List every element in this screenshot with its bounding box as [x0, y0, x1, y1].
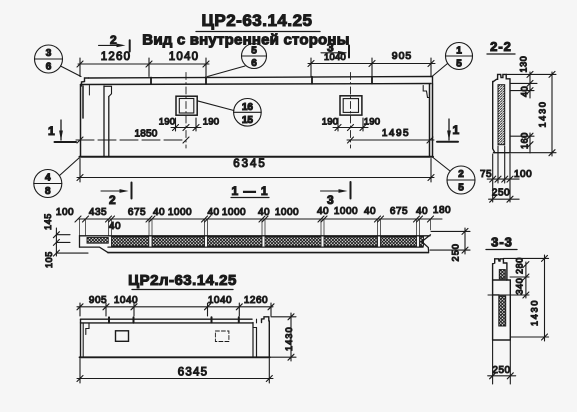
- svg-text:6345: 6345: [233, 158, 267, 170]
- dimension 190 190 (opening 1): [159, 117, 219, 132]
- callout circle 3/6: [35, 45, 82, 77]
- svg-text:1495: 1495: [382, 128, 410, 139]
- section mark 3 (bottom): [321, 182, 351, 207]
- dimension 1260 (top row left): [77, 51, 209, 77]
- dimension 250 (2-2 bottom): [489, 183, 519, 202]
- dimension 130 (2-2): [506, 56, 556, 98]
- svg-text:4: 4: [45, 173, 51, 184]
- callout circle 16/15: [197, 99, 261, 127]
- section 3-3 outline: [493, 259, 511, 340]
- right corner notch: [423, 86, 429, 98]
- section mark 1 (left): [48, 120, 76, 142]
- svg-text:1430: 1430: [530, 299, 540, 326]
- svg-text:675: 675: [390, 206, 408, 217]
- svg-text:3: 3: [327, 193, 334, 207]
- svg-text:160: 160: [520, 132, 530, 149]
- svg-text:250: 250: [492, 365, 510, 376]
- svg-text:250: 250: [492, 188, 510, 199]
- dimension 1850: [76, 129, 189, 144]
- svg-text:ЦР2-63.14.25: ЦР2-63.14.25: [201, 11, 312, 30]
- dimension 1495: [347, 128, 434, 143]
- svg-text:3: 3: [46, 48, 52, 59]
- svg-text:100: 100: [56, 207, 74, 218]
- svg-text:40: 40: [416, 206, 428, 217]
- left end inner line: [88, 86, 90, 96]
- svg-text:2-2: 2-2: [490, 39, 512, 54]
- svg-text:905: 905: [89, 295, 107, 306]
- dimension 160 (2-2): [510, 132, 534, 153]
- svg-text:1040: 1040: [324, 52, 346, 63]
- bottom panel left corner notch: [86, 323, 89, 335]
- dimension 40 (2-2): [510, 86, 534, 97]
- section 3-3 big hatch: [499, 296, 506, 326]
- svg-text:1430: 1430: [538, 100, 548, 127]
- main panel outline: [80, 84, 434, 157]
- dimension 1430 (3-3): [510, 255, 548, 341]
- svg-text:ЦР2л-63.14.25: ЦР2л-63.14.25: [128, 272, 237, 289]
- dimension 6345 (bottom panel): [77, 359, 273, 384]
- svg-text:190: 190: [203, 117, 219, 128]
- callout circle 5/6: [208, 44, 267, 77]
- svg-text:250: 250: [451, 243, 461, 262]
- section 1-1 hatch segments: [112, 237, 424, 246]
- svg-text:905: 905: [392, 50, 413, 62]
- svg-text:40: 40: [207, 207, 219, 218]
- main panel top band: [81, 77, 433, 87]
- opening 2 centerline: [350, 73, 352, 149]
- label 2-2: [487, 39, 515, 54]
- svg-text:100: 100: [514, 169, 532, 180]
- dimension 145/105 (section 1-1 left): [43, 213, 88, 268]
- svg-text:435: 435: [89, 207, 107, 218]
- callout circle 2/5: [433, 158, 475, 195]
- svg-text:1: 1: [453, 123, 460, 137]
- svg-text:1260: 1260: [244, 295, 268, 306]
- svg-text:1000: 1000: [222, 207, 246, 218]
- svg-text:1430: 1430: [284, 326, 294, 351]
- section mark 2 (bottom): [101, 183, 132, 208]
- svg-text:1 — 1: 1 — 1: [231, 184, 268, 198]
- top band division marks: [151, 77, 372, 84]
- svg-text:1: 1: [456, 46, 462, 57]
- dimension 250 (section 1-1 right): [430, 228, 470, 262]
- bottom panel right inner lines: [253, 323, 257, 357]
- svg-text:340: 340: [515, 278, 525, 295]
- svg-text:1000: 1000: [275, 207, 299, 218]
- svg-text:1040: 1040: [169, 51, 199, 63]
- svg-text:8: 8: [45, 186, 51, 197]
- dimension 1430 (2-2): [510, 71, 556, 156]
- svg-text:6: 6: [251, 58, 257, 69]
- section 1-1 thin hatch segment 435: [87, 238, 108, 244]
- title ЦР2-63.14.25: [196, 11, 320, 32]
- bottom panel outline: [80, 317, 271, 358]
- svg-text:190: 190: [159, 117, 175, 128]
- dimension 75/100 (2-2 bottom): [480, 146, 532, 183]
- section mark 2 (top left): [99, 33, 130, 52]
- svg-text:1040: 1040: [208, 295, 232, 306]
- svg-text:6: 6: [46, 62, 52, 73]
- opening 2 (window): [340, 96, 362, 115]
- dimension 250 (3-3 bottom): [488, 340, 516, 384]
- svg-text:6345: 6345: [178, 367, 208, 379]
- svg-text:5: 5: [458, 183, 464, 194]
- svg-text:2: 2: [109, 193, 116, 207]
- title ЦР2л-63.14.25: [128, 272, 237, 290]
- svg-text:16: 16: [242, 102, 254, 113]
- svg-text:5: 5: [456, 59, 462, 70]
- svg-text:15: 15: [242, 115, 254, 126]
- svg-text:1000: 1000: [168, 207, 192, 218]
- callout circle 1/5: [432, 43, 473, 77]
- mid rib with corbel: [104, 86, 112, 156]
- svg-text:40: 40: [520, 86, 530, 97]
- svg-text:190: 190: [322, 117, 338, 128]
- svg-text:1260: 1260: [101, 51, 131, 63]
- dimension 190 190 (opening 2): [322, 117, 380, 132]
- svg-text:180: 180: [433, 205, 451, 216]
- dimension 6345 (main view): [77, 158, 434, 182]
- svg-text:280: 280: [515, 257, 525, 274]
- section 1-1 dimension row: [56, 205, 451, 232]
- svg-text:40: 40: [317, 206, 329, 217]
- svg-text:675: 675: [128, 207, 146, 218]
- section 3-3 small hatch: [499, 270, 505, 279]
- label 1-1: [231, 184, 269, 198]
- section mark 3 (top): [321, 41, 349, 58]
- bottom panel top tabs: [109, 317, 239, 323]
- svg-text:5: 5: [251, 46, 257, 57]
- svg-text:1040: 1040: [114, 295, 138, 306]
- callout circle 4/8: [34, 158, 79, 198]
- svg-text:75: 75: [480, 169, 492, 180]
- section mark 1 (right): [437, 119, 460, 142]
- svg-text:1000: 1000: [334, 206, 358, 217]
- section 2-2 hatch: [498, 85, 505, 145]
- svg-text:40: 40: [364, 206, 376, 217]
- svg-text:1850: 1850: [134, 129, 157, 140]
- dimension row (bottom panel): 905 1040 ... 1040 1260: [77, 295, 274, 316]
- section 1-1 strip outline: [80, 235, 431, 253]
- opening 1 (window): [176, 96, 197, 115]
- section 1-1 dim ticks: [75, 216, 434, 236]
- svg-text:145: 145: [43, 213, 53, 230]
- svg-text:40: 40: [109, 221, 121, 232]
- svg-text:2: 2: [458, 169, 464, 180]
- dimension 1430 (bottom panel): [271, 313, 296, 361]
- svg-text:130: 130: [519, 56, 529, 73]
- bottom panel opening 1: [116, 331, 129, 342]
- svg-text:105: 105: [44, 251, 54, 268]
- opening 1 centerline: [185, 73, 187, 149]
- dimension 280 (3-3): [488, 257, 549, 298]
- section 2-2 outline: [493, 74, 510, 152]
- dimension 1040 (top row right): [308, 50, 435, 77]
- svg-text:3-3: 3-3: [491, 235, 513, 250]
- bottom panel opening 2 (dashed): [215, 331, 229, 342]
- label 3-3: [486, 235, 517, 250]
- svg-text:1: 1: [48, 124, 55, 138]
- svg-text:190: 190: [364, 117, 380, 128]
